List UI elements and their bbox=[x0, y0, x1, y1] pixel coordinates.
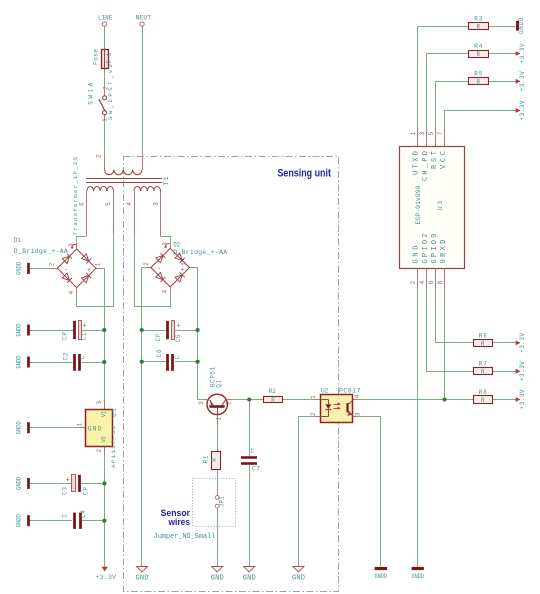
svg-text:1: 1 bbox=[410, 131, 417, 135]
svg-text:R3: R3 bbox=[474, 16, 482, 23]
svg-text:1: 1 bbox=[181, 262, 188, 266]
svg-text:+: + bbox=[176, 323, 180, 331]
svg-text:+3.3V: +3.3V bbox=[519, 100, 526, 120]
svg-text:VI: VI bbox=[101, 411, 108, 417]
svg-text:+: + bbox=[66, 477, 70, 485]
svg-text:C: C bbox=[174, 355, 181, 359]
svg-text:3: 3 bbox=[355, 412, 362, 416]
svg-text:GND: GND bbox=[413, 246, 421, 264]
svg-text:6: 6 bbox=[428, 280, 435, 284]
svg-text:+3.3V: +3.3V bbox=[519, 71, 526, 91]
svg-text:VCC: VCC bbox=[440, 151, 448, 169]
svg-text:T1: T1 bbox=[163, 176, 170, 185]
svg-text:C6: C6 bbox=[156, 349, 163, 357]
svg-text:5: 5 bbox=[428, 131, 435, 135]
svg-text:C7: C7 bbox=[252, 466, 260, 473]
svg-text:GNDD: GNDD bbox=[518, 17, 525, 34]
svg-text:R8: R8 bbox=[479, 389, 487, 396]
svg-text:C3: C3 bbox=[61, 487, 68, 495]
svg-text:R4: R4 bbox=[474, 43, 482, 50]
svg-text:1: 1 bbox=[95, 262, 102, 266]
svg-text:3: 3 bbox=[96, 401, 103, 405]
svg-text:VO: VO bbox=[101, 436, 108, 442]
svg-text:2: 2 bbox=[143, 262, 150, 266]
svg-text:Sensing unit: Sensing unit bbox=[277, 167, 331, 179]
svg-text:3: 3 bbox=[153, 202, 160, 206]
svg-text:Transformer_1P_2S: Transformer_1P_2S bbox=[72, 156, 79, 235]
svg-text:PC817: PC817 bbox=[339, 388, 361, 395]
svg-text:R: R bbox=[481, 369, 485, 376]
svg-text:2: 2 bbox=[310, 412, 317, 416]
svg-text:-: - bbox=[64, 266, 68, 273]
svg-text:CP: CP bbox=[155, 333, 162, 341]
svg-text:+: + bbox=[181, 266, 185, 273]
svg-text:R1: R1 bbox=[203, 455, 210, 463]
svg-text:U1: U1 bbox=[111, 408, 118, 417]
svg-text:2: 2 bbox=[49, 262, 56, 266]
svg-text:Jumper_NO_Small: Jumper_NO_Small bbox=[154, 533, 216, 541]
svg-text:4: 4 bbox=[68, 290, 75, 294]
svg-text:C: C bbox=[61, 513, 68, 517]
svg-text:RST: RST bbox=[431, 151, 439, 169]
svg-text:GNDD: GNDD bbox=[16, 477, 23, 490]
svg-text:C5: C5 bbox=[175, 334, 182, 342]
svg-text:GND: GND bbox=[243, 575, 256, 583]
svg-text:C1: C1 bbox=[81, 332, 88, 340]
svg-text:NEUT: NEUT bbox=[135, 14, 151, 21]
svg-text:D2: D2 bbox=[173, 241, 180, 248]
svg-text:C: C bbox=[250, 448, 254, 455]
svg-text:4: 4 bbox=[161, 289, 168, 293]
svg-text:+3.3V: +3.3V bbox=[519, 389, 526, 409]
svg-text:1: 1 bbox=[310, 395, 317, 399]
svg-text:GNDD: GNDD bbox=[375, 573, 388, 580]
svg-text:2: 2 bbox=[410, 280, 417, 284]
svg-text:U2: U2 bbox=[321, 388, 329, 395]
svg-text:GNDD: GNDD bbox=[16, 355, 23, 368]
svg-text:8: 8 bbox=[437, 280, 444, 284]
svg-text:GND: GND bbox=[88, 425, 102, 432]
svg-text:GNDD: GNDD bbox=[16, 514, 23, 527]
svg-text:R: R bbox=[211, 458, 218, 462]
svg-text:6: 6 bbox=[79, 202, 86, 206]
svg-text:ESP-01v090: ESP-01v090 bbox=[415, 185, 422, 224]
svg-text:R: R bbox=[477, 79, 481, 86]
svg-text:+: + bbox=[87, 267, 91, 274]
svg-text:2: 2 bbox=[95, 154, 102, 158]
svg-text:AP1117-33: AP1117-33 bbox=[110, 425, 117, 468]
svg-text:Fuse: Fuse bbox=[92, 49, 99, 65]
svg-text:GND: GND bbox=[211, 575, 224, 583]
svg-text:CP: CP bbox=[83, 487, 90, 495]
svg-text:R: R bbox=[481, 340, 485, 347]
svg-text:R: R bbox=[477, 51, 481, 58]
svg-text:GNDD: GNDD bbox=[411, 573, 424, 580]
svg-text:D_Bridge_+-AA: D_Bridge_+-AA bbox=[173, 249, 227, 256]
svg-text:-: - bbox=[157, 265, 161, 272]
svg-text:3: 3 bbox=[68, 243, 75, 247]
svg-text:LINE: LINE bbox=[98, 14, 113, 21]
svg-text:JP1: JP1 bbox=[218, 496, 225, 507]
svg-text:+3.3V: +3.3V bbox=[519, 361, 526, 381]
svg-text:SW_DPST_v2: SW_DPST_v2 bbox=[107, 63, 114, 120]
svg-text:4: 4 bbox=[354, 394, 361, 398]
svg-text:D1: D1 bbox=[14, 237, 21, 244]
svg-text:1: 1 bbox=[216, 416, 223, 420]
svg-text:C2: C2 bbox=[62, 352, 69, 360]
svg-text:R: R bbox=[481, 397, 485, 404]
svg-text:GNDD: GNDD bbox=[16, 323, 23, 336]
svg-text:C: C bbox=[80, 355, 87, 359]
svg-text:GNDD: GNDD bbox=[16, 421, 23, 434]
svg-text:3: 3 bbox=[198, 401, 205, 405]
svg-text:7: 7 bbox=[437, 131, 444, 135]
svg-text:D_Bridge_+-AA: D_Bridge_+-AA bbox=[14, 248, 68, 255]
svg-text:GND: GND bbox=[292, 575, 305, 583]
svg-text:GNDD: GNDD bbox=[16, 262, 23, 275]
svg-text:GND: GND bbox=[136, 575, 149, 583]
svg-text:5: 5 bbox=[105, 202, 112, 206]
svg-text:2: 2 bbox=[226, 401, 233, 405]
svg-text:+3.3V: +3.3V bbox=[519, 43, 526, 63]
svg-text:R: R bbox=[271, 397, 275, 404]
svg-text:R6: R6 bbox=[479, 332, 487, 339]
svg-text:+3.3V: +3.3V bbox=[95, 574, 116, 581]
svg-text:R2: R2 bbox=[269, 388, 276, 395]
svg-text:+3.3V: +3.3V bbox=[519, 333, 526, 353]
svg-text:4: 4 bbox=[419, 280, 426, 284]
svg-text:Q1: Q1 bbox=[215, 379, 222, 387]
svg-text:R5: R5 bbox=[474, 71, 482, 78]
svg-text:U3: U3 bbox=[437, 201, 444, 210]
svg-text:+: + bbox=[82, 323, 86, 331]
svg-text:3: 3 bbox=[419, 131, 426, 135]
svg-text:wires: wires bbox=[168, 517, 190, 527]
svg-text:2: 2 bbox=[96, 449, 103, 453]
svg-text:1: 1 bbox=[77, 423, 84, 427]
svg-text:4: 4 bbox=[126, 202, 133, 206]
svg-text:R7: R7 bbox=[479, 361, 487, 368]
svg-text:3: 3 bbox=[161, 242, 168, 246]
svg-text:R: R bbox=[477, 24, 481, 31]
svg-text:C4: C4 bbox=[80, 510, 87, 518]
svg-text:CP: CP bbox=[62, 332, 69, 340]
